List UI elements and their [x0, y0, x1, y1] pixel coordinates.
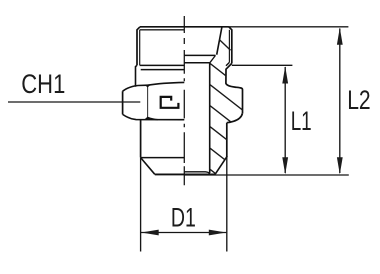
stud body right edge (section) — [226, 123, 228, 158]
dimension D1 line with arrows — [141, 232, 226, 234]
thread minor diameter line left — [139, 30, 141, 66]
section profile: thread runout V, undercut groove, flare to hex — [226, 63, 243, 89]
thread major diameter line left with corner chamfer — [137, 27, 140, 66]
neck collar edge left — [136, 65, 138, 87]
svg-text:D1: D1 — [171, 202, 196, 232]
hatching of section wall — [195, 40, 246, 198]
centerline (vertical axis) — [183, 16, 185, 185]
bottom chamfer cone right (section) — [215, 156, 227, 174]
svg-text:CH1: CH1 — [21, 69, 65, 99]
counterbore-to-bore chamfer — [210, 55, 216, 62]
dimension L1 line with arrows — [284, 67, 286, 173]
extension line bottom (L1/L2) — [185, 174, 349, 176]
wire: bore step line — [184, 62, 210, 64]
leader line CH1 — [8, 101, 140, 103]
thread major diameter line right with corner chamfer — [229, 27, 232, 64]
extension line D1 left — [140, 157, 142, 251]
bottom chamfer cone left — [141, 158, 155, 175]
stud body left edge — [140, 120, 142, 158]
hex top chamfer arc, middle flat — [148, 82, 185, 85]
internal 24deg cone seat — [217, 27, 222, 55]
wire: shoulder line upper (left half) — [140, 64, 185, 66]
hex left silhouette edge — [122, 91, 124, 114]
wire: top face line with L2 extension line — [140, 26, 348, 28]
wire: counterbore bottom face — [184, 54, 215, 56]
thread minor diameter line right — [228, 30, 230, 63]
wire: top chamfer circle line (left half) — [140, 29, 185, 31]
extension line L1 top — [232, 64, 293, 66]
wire: bore exit chamfer edge — [184, 172, 209, 174]
wire: bottom end face edge — [155, 173, 216, 175]
hex corner line between flats — [147, 85, 149, 117]
section profile: hex flat edge right — [242, 90, 244, 114]
hex bottom chamfer arc, left flat — [123, 114, 185, 119]
section profile: hex bottom chamfer cone — [227, 113, 243, 123]
wire: shoulder line lower (left half) — [141, 69, 185, 71]
hex bottom chamfer arc, middle flat — [148, 117, 158, 119]
svg-text:L1: L1 — [291, 106, 312, 136]
wire: bottom chamfer top line (left half) — [141, 157, 185, 159]
hex top chamfer arc, left flat — [123, 85, 148, 91]
dimension L2 line with arrows — [339, 29, 341, 174]
bore wall (section) — [209, 63, 211, 173]
svg-text:L2: L2 — [347, 85, 371, 115]
manufacturer logo mark on hex flat — [161, 97, 179, 108]
extension line D1 right — [226, 157, 228, 251]
